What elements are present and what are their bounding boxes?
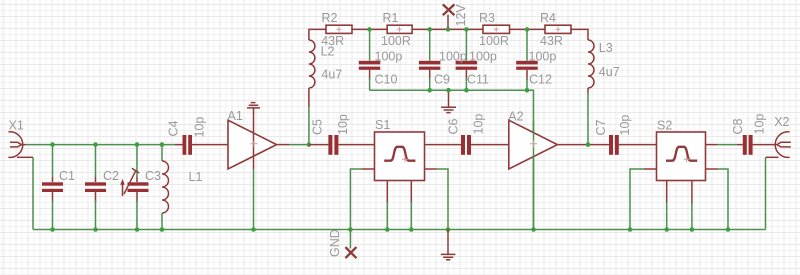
svg-text:C9: C9 [434, 73, 450, 87]
svg-text:100R: 100R [479, 34, 509, 48]
svg-text:R2: R2 [322, 11, 338, 25]
svg-text:C10: C10 [375, 73, 398, 87]
svg-text:12V: 12V [454, 4, 468, 27]
svg-text:10p: 10p [336, 114, 350, 135]
svg-text:100p: 100p [529, 50, 557, 64]
svg-text:X2: X2 [774, 115, 789, 129]
svg-text:S1: S1 [375, 118, 390, 132]
svg-text:100p: 100p [469, 50, 497, 64]
svg-text:C7: C7 [594, 119, 608, 135]
svg-text:C8: C8 [731, 118, 745, 134]
svg-text:100p: 100p [375, 50, 403, 64]
svg-text:X1: X1 [9, 118, 24, 132]
svg-text:10p: 10p [618, 115, 632, 136]
svg-text:A1: A1 [228, 109, 243, 123]
svg-text:S2: S2 [657, 119, 672, 133]
svg-text:C11: C11 [467, 73, 489, 87]
svg-text:10p: 10p [472, 114, 486, 135]
svg-text:C5: C5 [311, 119, 325, 135]
svg-text:4u7: 4u7 [321, 68, 342, 82]
svg-text:C2: C2 [103, 169, 119, 183]
svg-text:C1: C1 [59, 169, 75, 183]
svg-text:C12: C12 [529, 73, 552, 87]
svg-text:L1: L1 [189, 170, 203, 184]
svg-text:C6: C6 [447, 118, 461, 134]
svg-text:C4: C4 [167, 120, 181, 136]
svg-text:L2: L2 [321, 45, 335, 59]
svg-text:R3: R3 [479, 11, 495, 25]
svg-text:10p: 10p [193, 117, 207, 138]
svg-text:L3: L3 [599, 41, 613, 55]
svg-text:GND: GND [328, 229, 342, 257]
svg-text:R1: R1 [383, 11, 399, 25]
svg-text:100R: 100R [381, 34, 411, 48]
svg-text:C3: C3 [145, 169, 161, 183]
svg-text:10p: 10p [753, 114, 767, 135]
svg-text:A2: A2 [508, 110, 523, 124]
svg-text:43R: 43R [540, 34, 563, 48]
svg-text:100p: 100p [439, 50, 467, 64]
svg-text:4u7: 4u7 [599, 65, 620, 79]
svg-text:R4: R4 [540, 11, 556, 25]
